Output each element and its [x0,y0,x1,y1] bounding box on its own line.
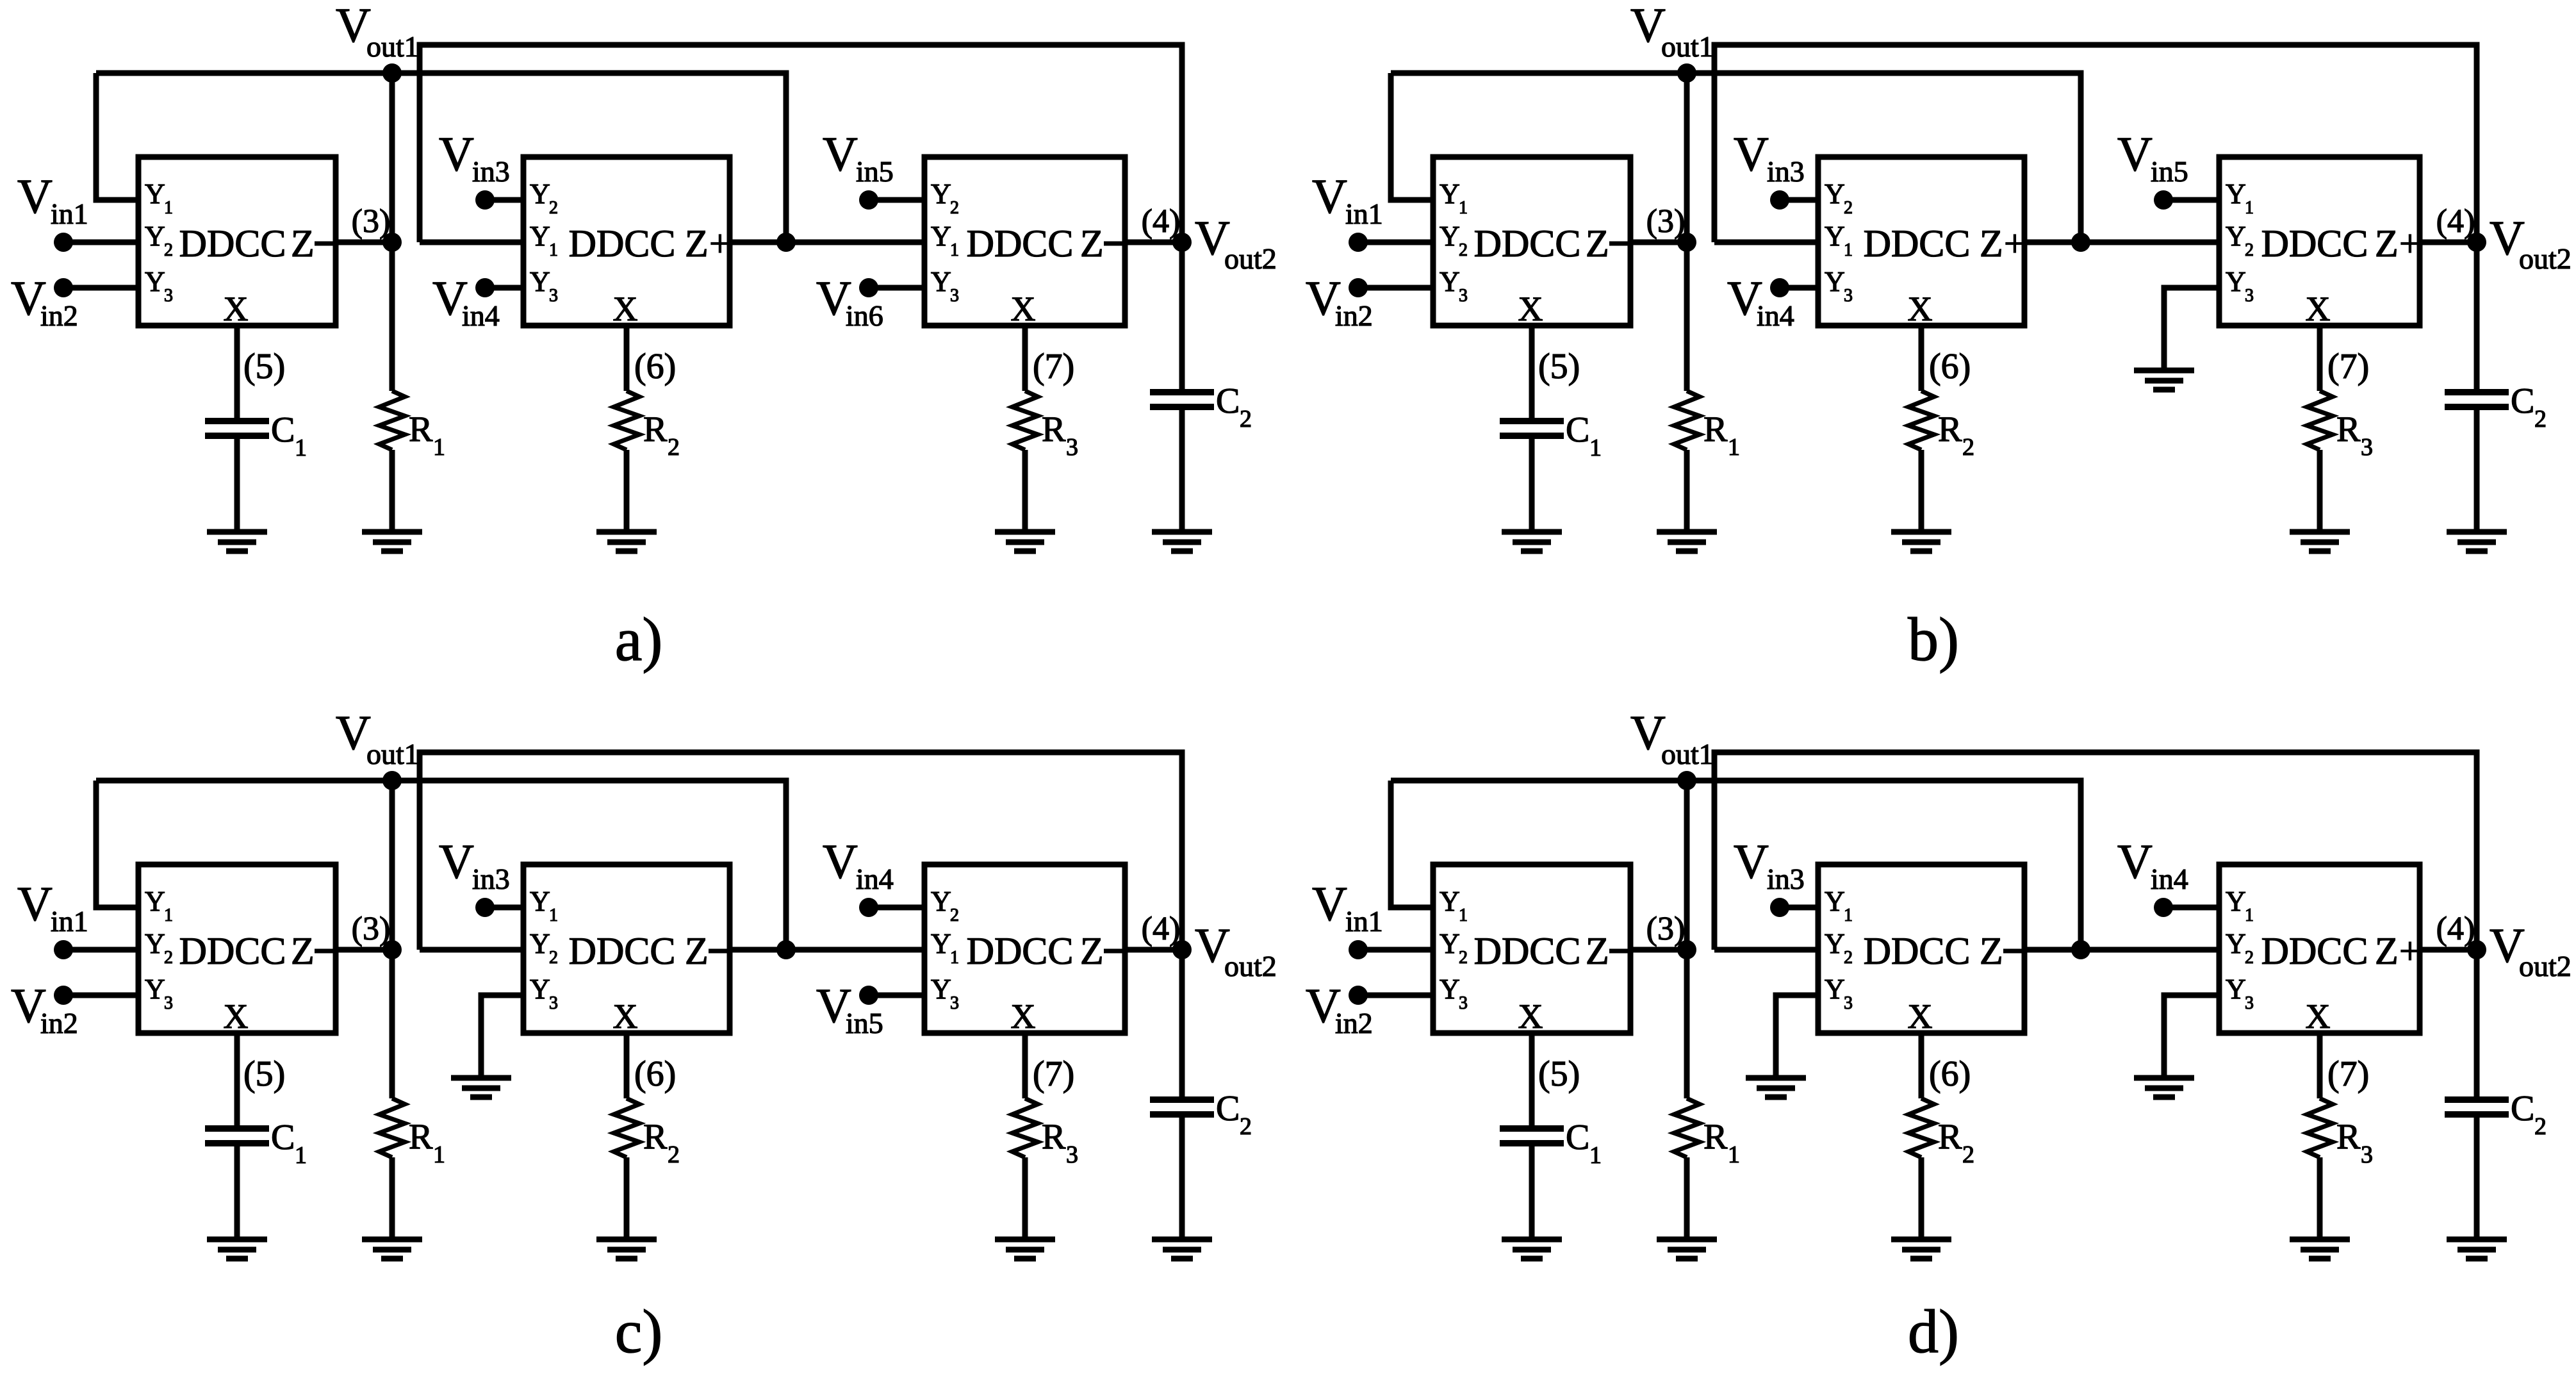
wire: Vin1 to B1 mid pin, circuit d [1358,947,1433,953]
svg-text:X: X [613,290,638,328]
op-amp (DDCC block) U1a [138,157,336,326]
svg-text:in6: in6 [846,299,883,332]
svg-text:DDCC: DDCC [1864,930,1971,972]
ground under R3, circuit a [995,532,1055,551]
svg-text:R: R [409,1117,433,1157]
wire: B1 Z output to node (3), circuit c [336,947,392,953]
svg-text:2: 2 [950,906,959,925]
svg-text:+: + [709,222,731,265]
svg-text:in4: in4 [1757,299,1794,332]
pin Y2 [530,178,558,218]
svg-text:1: 1 [549,240,558,260]
svg-text:X: X [1908,997,1933,1036]
input terminal Vin2 [11,979,78,1039]
op-amp (DDCC block) U1c [138,864,336,1033]
input terminal Vin2 [11,272,78,332]
pin Y2 [145,928,173,968]
svg-text:Z: Z [2375,930,2399,972]
wire: B2 bottom pin to ground, circuit c [481,995,523,1078]
svg-text:C: C [2511,381,2534,421]
svg-text:3: 3 [1066,1141,1078,1168]
svg-text:2: 2 [1962,1141,1974,1168]
capacitor C1 circuit a [205,421,269,436]
wire: B2 Z output to B3 mid pin, circuit a [730,240,924,245]
label node (5), circuit a [243,347,285,386]
svg-text:2: 2 [1844,198,1853,218]
wire: R1 to ground, circuit d [1684,1157,1690,1239]
op-amp (DDCC block) U3d [2219,864,2420,1033]
svg-text:1: 1 [1844,906,1853,925]
svg-text:X: X [2306,290,2331,328]
svg-text:R: R [1703,1117,1728,1157]
pin X of U3d [2306,997,2331,1036]
svg-text:X: X [224,290,249,328]
ground under C2, circuit b [2447,532,2507,551]
svg-text:out2: out2 [1224,950,1277,982]
svg-text:Y: Y [1440,220,1460,252]
svg-text:(3): (3) [1646,203,1686,240]
pin Y3 [931,266,959,306]
node Vout1, circuit b [1677,63,1696,83]
label R1 circuit b value [1703,409,1740,461]
svg-text:Y: Y [1825,928,1845,959]
svg-text:(4): (4) [1142,203,1181,240]
svg-text:V: V [1734,128,1769,181]
svg-text:Z: Z [1080,930,1104,972]
pin Y1 [530,886,558,925]
input terminal Vin6 [816,272,883,332]
capacitor C1 circuit b [1500,421,1564,436]
label R2 circuit c value [643,1117,680,1168]
node Vout1, circuit d [1677,771,1696,790]
input terminal Vin2 [1306,979,1373,1039]
pin Y3 [145,973,173,1013]
svg-text:V: V [823,835,858,889]
op-amp (DDCC block) U2b [1818,157,2024,326]
ground under R2, circuit d [1891,1239,1951,1259]
svg-text:R: R [409,409,433,449]
svg-text:Z: Z [1980,930,2003,972]
svg-text:1: 1 [433,1141,445,1168]
wire: Vout1 line from B1 feedback to node between B2 and B3, circuit c [96,781,786,950]
label C1 circuit b value [1566,410,1602,461]
wire: Vin1 to B1 mid pin, circuit c [63,947,138,953]
svg-text:3: 3 [1844,993,1853,1013]
svg-text:2: 2 [2245,948,2254,968]
svg-text:DDCC: DDCC [1474,222,1581,265]
wire: B3 X pin node (7) to R3, circuit b [2317,326,2323,391]
svg-text:Z: Z [685,222,709,265]
resistor R2 circuit a [614,391,639,450]
wire: B1 X pin node (5) to C1, circuit d [1529,1033,1535,1129]
ground under C1, circuit b [1502,532,1562,551]
resistor R3 circuit a [1012,391,1038,450]
wire: node (4) down to C2, circuit c [1179,950,1185,1100]
pin Y3 [530,266,558,306]
input terminal Vin4 [823,835,894,917]
wire: R1 to ground, circuit a [390,450,395,532]
wire: Vin6 to B3, circuit a [869,285,924,291]
svg-text:2: 2 [2245,240,2254,260]
label DDCC U1b [1474,222,1581,265]
wire: C1 to ground, circuit c [234,1143,240,1239]
svg-text:in3: in3 [1767,155,1805,188]
pin Y1 [145,886,173,925]
svg-text:Y: Y [2226,220,2246,252]
svg-text:1: 1 [549,906,558,925]
svg-text:DDCC: DDCC [569,222,676,265]
op-amp (DDCC block) U3a [924,157,1125,326]
pin Y3 [1825,266,1853,306]
svg-text:1: 1 [950,948,959,968]
node between B2 and B3, circuit c [776,940,796,959]
svg-text:Y: Y [530,266,550,297]
svg-text:in2: in2 [40,299,78,332]
svg-text:DDCC: DDCC [1474,930,1581,972]
wire: B1 Z output to node (3), circuit d [1630,947,1687,953]
ground at B2 Y3, circuit d [1746,1078,1806,1097]
label R3 circuit b value [2336,409,2373,461]
svg-text:in4: in4 [2151,863,2188,895]
svg-text:a): a) [615,605,663,674]
input terminal Vin2 [1306,272,1373,332]
capacitor C2 circuit d [2445,1100,2509,1114]
label sub-figure a) [615,605,663,674]
node Vout1, circuit a [382,63,402,83]
svg-text:X: X [1518,997,1543,1036]
label Vout1, circuit a [336,0,419,63]
label C2 circuit a value [1216,381,1252,433]
pin Y1 [2226,886,2254,925]
wire: Vin2 to B1 bottom pin, circuit d [1358,993,1433,998]
label node (3), circuit b [1646,203,1686,240]
label DDCC U3d [2261,930,2368,972]
svg-text:V: V [17,170,53,224]
svg-text:X: X [613,997,638,1036]
label node (6), circuit a [634,347,676,386]
svg-text:Y: Y [931,178,951,210]
label sub-figure c) [615,1297,663,1366]
label C1 circuit a value [271,410,307,461]
wire: Vin5 to B3, circuit b [2163,197,2219,203]
wire: top feedback line (node 4 to B2 mid pin), circuit b [1714,45,2477,242]
ground under C2, circuit a [1152,532,1212,551]
svg-text:R: R [1938,1117,1962,1157]
svg-text:1: 1 [164,198,173,218]
pin Y3 [1440,266,1468,306]
pin X of U2c [613,997,638,1036]
wire: Vin4 to B2, circuit a [485,285,523,291]
svg-text:X: X [1518,290,1543,328]
wire: Vout1 node to node (3), circuit a [390,73,395,242]
pin Z- of U1a [291,222,334,265]
wire: Vin5 to B3, circuit c [869,993,924,998]
label node (5), circuit c [243,1054,285,1094]
wire: Vout1 node to node (3), circuit b [1684,73,1690,242]
node Vout1, circuit c [382,771,402,790]
svg-text:Y: Y [1825,220,1845,252]
svg-text:V: V [439,128,474,181]
label node (6), circuit b [1929,347,1971,386]
svg-text:2: 2 [668,434,680,461]
wire: Vin2 to B1 bottom pin, circuit b [1358,285,1433,291]
svg-text:Y: Y [931,220,951,252]
pin Z+ of U3b [2375,222,2421,265]
input terminal Vin5 [2117,128,2188,210]
svg-text:2: 2 [1240,406,1252,433]
svg-text:V: V [1734,835,1769,889]
capacitor C1 circuit d [1500,1129,1564,1143]
wire: C1 to ground, circuit d [1529,1143,1535,1239]
pin Z- of U1c [291,930,334,972]
svg-text:out1: out1 [366,30,419,63]
svg-text:1: 1 [1459,198,1468,218]
svg-text:(6): (6) [1929,347,1971,386]
input terminal Vin5 [816,979,883,1039]
svg-text:1: 1 [295,1142,307,1169]
svg-text:3: 3 [2245,993,2254,1013]
label node (4), circuit b [2436,203,2475,240]
label DDCC U2a [569,222,676,265]
label C2 circuit c value [1216,1089,1252,1140]
svg-text:(3): (3) [352,203,391,240]
svg-text:X: X [1011,997,1036,1036]
ground under C1, circuit a [207,532,267,551]
input terminal Vin1 [1312,877,1383,959]
svg-text:V: V [17,877,53,931]
pin X of U2b [1908,290,1933,328]
wire: top feedback line (node 4 to B2 mid pin), circuit d [1714,752,2477,950]
svg-text:V: V [2117,128,2153,181]
svg-text:3: 3 [2361,1141,2373,1168]
svg-text:C: C [1216,1089,1240,1129]
svg-text:in2: in2 [40,1007,78,1039]
svg-text:R: R [2336,409,2361,449]
svg-text:in5: in5 [846,1007,883,1039]
svg-text:V: V [1312,170,1347,224]
svg-text:Y: Y [145,178,165,210]
svg-text:X: X [1908,290,1933,328]
label R3 circuit c value [1042,1117,1078,1168]
capacitor C2 circuit c [1150,1100,1214,1114]
wire: node (4) down to C2, circuit d [2474,950,2480,1100]
svg-text:Z: Z [291,222,315,265]
svg-text:V: V [336,0,371,53]
svg-text:in5: in5 [2151,155,2188,188]
wire: B2 bottom pin to ground, circuit d [1776,995,1818,1078]
svg-text:1: 1 [2245,198,2254,218]
svg-text:2: 2 [2534,1113,2547,1140]
resistor R3 circuit d [2307,1098,2333,1157]
wire: B3 Z output to node (4), circuit d [2420,947,2477,953]
node (3), circuit d [1677,940,1696,959]
ground under C1, circuit d [1502,1239,1562,1259]
svg-text:V: V [1312,877,1347,931]
wire: B1 X pin node (5) to C1, circuit c [234,1033,240,1129]
node between B2 and B3, circuit d [2071,940,2090,959]
svg-text:1: 1 [164,906,173,925]
label Vout2, circuit a [1195,211,1277,275]
svg-text:Y: Y [530,220,550,252]
wire: top feedback line (node 4 to B2 mid pin), circuit c [420,752,1182,950]
node between B2 and B3, circuit b [2071,233,2090,252]
svg-text:Z: Z [685,930,709,972]
pin X of U2a [613,290,638,328]
svg-text:3: 3 [1459,286,1468,306]
wire: B1 Z output to node (3), circuit a [336,240,392,245]
wire: B3 X pin node (7) to R3, circuit a [1022,326,1028,391]
svg-text:Y: Y [1825,886,1845,917]
svg-text:V: V [823,128,858,181]
wire: B3 X pin node (7) to R3, circuit d [2317,1033,2323,1098]
label C1 circuit d value [1566,1118,1602,1169]
node (4) Vout2, circuit c [1172,940,1192,959]
svg-text:3: 3 [950,286,959,306]
svg-text:in4: in4 [856,863,894,895]
svg-text:(7): (7) [2327,347,2369,386]
svg-text:out1: out1 [1661,30,1714,63]
label node (4), circuit c [1142,911,1181,947]
label R2 circuit d value [1938,1117,1974,1168]
svg-text:out2: out2 [2519,950,2572,982]
svg-text:(4): (4) [2436,203,2475,240]
svg-text:DDCC: DDCC [967,222,1074,265]
wire: B2 Z output to B3 mid pin, circuit d [2024,947,2219,953]
label Vout1, circuit d [1630,706,1714,770]
svg-text:Y: Y [530,886,550,917]
svg-text:Y: Y [530,928,550,959]
svg-text:Z: Z [291,930,315,972]
svg-text:Y: Y [1825,973,1845,1005]
wire: B2 X pin node (6) to R2, circuit a [624,326,630,391]
label DDCC U2b [1864,222,1971,265]
svg-text:in4: in4 [462,299,500,332]
label sub-figure d) [1908,1297,1959,1366]
svg-text:Y: Y [931,928,951,959]
wire: Vin4 to B2, circuit b [1780,285,1818,291]
svg-text:(3): (3) [352,911,391,947]
pin Z- of U1b [1586,222,1629,265]
input terminal Vin1 [17,170,88,252]
wire: R1 to ground, circuit b [1684,450,1690,532]
ground under R1, circuit c [362,1239,422,1259]
svg-text:Y: Y [145,266,165,297]
svg-text:out1: out1 [1661,738,1714,770]
pin Y3 [1825,973,1853,1013]
op-amp (DDCC block) U3c [924,864,1125,1033]
svg-text:c): c) [615,1297,663,1366]
label DDCC U2d [1864,930,1971,972]
input terminal Vin3 [439,835,510,917]
pin Z- of U3c [1080,930,1124,972]
pin X of U1c [224,997,249,1036]
label node (5), circuit b [1538,347,1580,386]
svg-text:Y: Y [530,973,550,1005]
pin Y3 [931,973,959,1013]
svg-text:2: 2 [950,198,959,218]
wire: B3 Z output to node (4), circuit c [1125,947,1182,953]
wire: node (4) down to C2, circuit b [2474,242,2480,392]
ground under R2, circuit b [1891,532,1951,551]
pin Z- of U2d [1980,930,2023,972]
ground under C2, circuit d [2447,1239,2507,1259]
wire: Vout1 node to node (3), circuit c [390,781,395,950]
svg-text:Z: Z [1980,222,2003,265]
svg-text:2: 2 [668,1141,680,1168]
wire: B1 Y1 feedback, circuit d [1391,781,1433,907]
node between B2 and B3, circuit a [776,233,796,252]
wire: Vin3 to B2, circuit d [1780,905,1818,911]
svg-text:in3: in3 [472,863,510,895]
svg-text:1: 1 [433,434,445,461]
svg-text:+: + [2399,222,2421,265]
pin Y1 [1440,886,1468,925]
pin Y3 [1440,973,1468,1013]
svg-text:DDCC: DDCC [1864,222,1971,265]
label node (4), circuit a [1142,203,1181,240]
svg-text:out2: out2 [2519,242,2572,275]
pin Z+ of U2b [1980,222,2026,265]
svg-text:Y: Y [145,220,165,252]
label C1 circuit c value [271,1118,307,1169]
ground under R1, circuit a [362,532,422,551]
svg-text:3: 3 [2361,434,2373,461]
wire: R2 to ground, circuit a [624,450,630,532]
svg-text:in1: in1 [51,905,88,938]
svg-text:Y: Y [530,178,550,210]
pin Y1 [1825,220,1853,260]
pin Y2 [145,220,173,260]
pin Y1 [530,220,558,260]
pin Z+ of U3d [2375,930,2421,972]
pin Z- of U2c [685,930,728,972]
wire: R1 to ground, circuit c [390,1157,395,1239]
svg-text:1: 1 [950,240,959,260]
pin Y2 [931,178,959,218]
svg-text:(5): (5) [243,1054,285,1094]
pin X of U1b [1518,290,1543,328]
svg-text:3: 3 [164,993,173,1013]
wire: B3 Z output to node (4), circuit b [2420,240,2477,245]
pin Y2 [1825,178,1853,218]
wire: R3 to ground, circuit a [1022,450,1028,532]
input terminal Vin3 [1734,835,1805,917]
wire: B1 Z output to node (3), circuit b [1630,240,1687,245]
svg-text:C: C [271,410,295,450]
wire: R2 to ground, circuit c [624,1157,630,1239]
node (4) Vout2, circuit d [2467,940,2486,959]
pin Y2 [530,928,558,968]
svg-text:(3): (3) [1646,911,1686,947]
op-amp (DDCC block) U2a [523,157,730,326]
label Vout2, circuit b [2490,211,2572,275]
svg-text:V: V [2117,835,2153,889]
label C2 circuit b value [2511,381,2547,433]
pin Z- of U3a [1080,222,1124,265]
svg-text:Y: Y [2226,266,2246,297]
svg-text:in3: in3 [472,155,510,188]
label DDCC U3b [2261,222,2368,265]
wire: Vout1 node to node (3), circuit d [1684,781,1690,950]
wire: B1 Y1 feedback, circuit a [96,73,138,200]
input terminal Vin1 [17,877,88,959]
wire: R3 to ground, circuit b [2317,450,2323,532]
op-amp (DDCC block) U1b [1433,157,1630,326]
wire: Vin3 to B2, circuit a [485,197,523,203]
svg-text:Y: Y [1825,266,1845,297]
svg-text:in1: in1 [1345,197,1383,230]
pin X of U3c [1011,997,1036,1036]
